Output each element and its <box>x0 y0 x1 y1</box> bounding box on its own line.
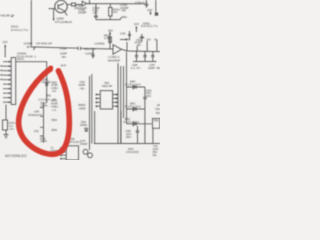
svg-text:76V: 76V <box>156 111 161 115</box>
svg-text:<F>: <F> <box>9 127 15 131</box>
svg-text:0.1 <F>: 0.1 <F> <box>131 66 141 70</box>
svg-text:12V: 12V <box>146 37 151 41</box>
svg-text:<B>: <B> <box>61 55 67 59</box>
svg-text:3V-P: 3V-P <box>61 64 67 68</box>
svg-text:20x: 20x <box>153 153 158 157</box>
svg-text:/D65A: /D65A <box>80 123 87 127</box>
svg-text:15S/E55: 15S/E55 <box>126 150 139 154</box>
svg-text:<1/16>: <1/16> <box>40 104 49 108</box>
svg-text:<F>: <F> <box>93 11 99 15</box>
svg-text:R54: R54 <box>52 118 58 122</box>
svg-text:0%: 0% <box>113 10 118 14</box>
svg-text:DTC114EUA: DTC114EUA <box>55 20 73 24</box>
svg-text:R62 27K: R62 27K <box>84 47 95 51</box>
svg-text:D1PL20U: D1PL20U <box>123 120 139 124</box>
svg-text:1SS355: 1SS355 <box>41 80 51 84</box>
svg-text:<P40P: <P40P <box>80 142 88 146</box>
svg-text:1S5/4: 1S5/4 <box>40 139 47 143</box>
svg-text:<B>: <B> <box>121 8 127 12</box>
svg-text:L51: L51 <box>34 129 39 133</box>
svg-text:330P <B>: 330P <B> <box>148 66 160 70</box>
svg-text:D4x: D4x <box>156 107 161 111</box>
svg-text:-12V: -12V <box>146 8 153 12</box>
svg-text:B+: B+ <box>155 37 159 41</box>
svg-text:BA2902F: BA2902F <box>108 59 120 63</box>
svg-text:HB+: HB+ <box>122 15 128 19</box>
svg-text:<E>: <E> <box>80 87 86 91</box>
svg-text:-25V: -25V <box>124 38 131 42</box>
svg-text:4P: 4P <box>27 45 31 49</box>
svg-text:SM7C: SM7C <box>17 57 24 61</box>
svg-text:CP-P15/-VP: CP-P15/-VP <box>36 42 52 46</box>
svg-text:DAN217U: DAN217U <box>141 24 158 28</box>
svg-text:R6x: R6x <box>154 118 159 122</box>
svg-text:A0Y30NLDC: A0Y30NLDC <box>5 154 27 158</box>
svg-text:x 3: x 3 <box>52 108 56 112</box>
svg-text:C308: C308 <box>60 47 67 51</box>
svg-text:D4N21TU: D4N21TU <box>11 28 28 32</box>
svg-text:I2TAG01YO: I2TAG01YO <box>28 113 42 117</box>
svg-text:1%: 1% <box>52 89 57 93</box>
svg-text:+B: +B <box>157 103 161 107</box>
svg-text:L50: L50 <box>34 110 39 114</box>
svg-text:MZ2-4F: MZ2-4F <box>102 84 113 88</box>
svg-text:GRD: GRD <box>79 106 86 110</box>
svg-text:+1/16S6+: +1/16S6+ <box>94 42 106 46</box>
svg-text:1000P: 1000P <box>78 11 87 15</box>
svg-text:C35: C35 <box>120 32 126 36</box>
svg-text:1.05: 1.05 <box>104 36 110 40</box>
svg-text:R50: R50 <box>52 128 58 132</box>
svg-text:<B>: <B> <box>136 43 142 47</box>
